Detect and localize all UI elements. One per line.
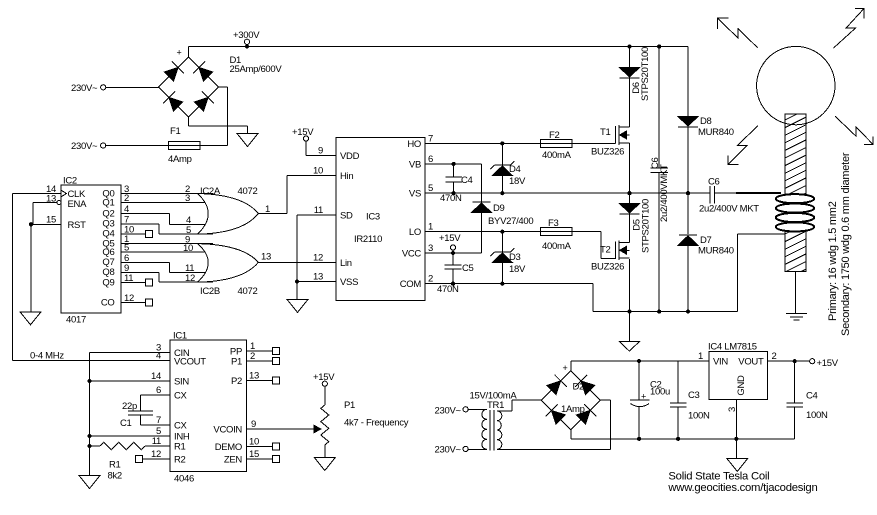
svg-text:9: 9	[251, 419, 256, 430]
svg-text:F1: F1	[170, 126, 181, 137]
svg-text:10: 10	[249, 437, 259, 448]
svg-text:CO: CO	[101, 298, 115, 309]
svg-text:MUR840: MUR840	[698, 127, 734, 138]
svg-text:1: 1	[428, 222, 433, 233]
svg-text:470N: 470N	[440, 193, 462, 204]
svg-text:IC2B: IC2B	[200, 286, 220, 297]
svg-text:5: 5	[428, 183, 433, 194]
svg-text:+: +	[177, 48, 182, 58]
svg-text:HO: HO	[407, 139, 421, 150]
svg-text:R1: R1	[174, 442, 186, 453]
svg-text:4017: 4017	[66, 315, 86, 326]
svg-text:2u2/400V MKT: 2u2/400V MKT	[699, 204, 759, 215]
svg-text:VOUT: VOUT	[738, 357, 764, 368]
svg-text:11: 11	[124, 273, 133, 284]
svg-text:SD: SD	[340, 211, 353, 222]
svg-text:CX: CX	[174, 391, 188, 402]
svg-text:4: 4	[156, 350, 161, 361]
svg-text:CX: CX	[174, 421, 188, 432]
svg-text:Q1: Q1	[102, 197, 114, 208]
svg-text:C6: C6	[708, 177, 720, 188]
svg-text:2: 2	[428, 274, 433, 285]
svg-text:12: 12	[185, 273, 195, 284]
svg-text:100u: 100u	[650, 387, 670, 398]
svg-text:BYV27/400: BYV27/400	[488, 216, 533, 227]
svg-text:100N: 100N	[688, 411, 710, 422]
svg-text:Lin: Lin	[340, 258, 352, 269]
svg-text:ZEN: ZEN	[224, 455, 243, 466]
svg-text:GND: GND	[736, 375, 747, 396]
svg-text:T2: T2	[600, 244, 611, 255]
svg-text:11: 11	[152, 436, 161, 447]
svg-text:F2: F2	[549, 130, 560, 141]
svg-text:STPS20T100: STPS20T100	[641, 199, 652, 253]
svg-text:1: 1	[265, 204, 270, 215]
svg-text:230V~: 230V~	[71, 83, 98, 94]
svg-text:13: 13	[46, 194, 56, 205]
svg-text:IR2110: IR2110	[354, 234, 382, 245]
svg-text:D9: D9	[493, 203, 505, 214]
svg-text:IC2: IC2	[63, 176, 77, 187]
svg-text:+15V: +15V	[439, 233, 461, 244]
svg-text:12: 12	[124, 293, 134, 304]
svg-text:10: 10	[183, 243, 193, 254]
svg-text:C3: C3	[688, 390, 700, 401]
svg-text:13: 13	[313, 272, 323, 283]
svg-text:10: 10	[313, 166, 323, 177]
svg-text:2: 2	[250, 351, 255, 362]
svg-text:8k2: 8k2	[108, 471, 122, 482]
svg-text:T1: T1	[600, 127, 611, 138]
svg-text:RST: RST	[68, 220, 87, 231]
svg-text:ENA: ENA	[68, 199, 88, 210]
svg-text:Solid State Tesla Coil: Solid State Tesla Coil	[668, 471, 769, 483]
svg-text:18V: 18V	[509, 264, 526, 275]
svg-text:13: 13	[249, 371, 259, 382]
svg-text:15: 15	[46, 215, 56, 226]
svg-text:3: 3	[727, 407, 738, 412]
svg-text:VCOIN: VCOIN	[213, 425, 242, 436]
svg-text:VCOUT: VCOUT	[174, 356, 206, 367]
svg-text:4Amp: 4Amp	[168, 154, 192, 165]
svg-text:VS: VS	[409, 189, 421, 200]
svg-text:2: 2	[124, 193, 129, 204]
svg-text:TR1: TR1	[487, 400, 504, 411]
svg-text:Primary: 16 wdg 1.5 mm2: Primary: 16 wdg 1.5 mm2	[827, 201, 839, 321]
svg-text:SIN: SIN	[174, 377, 189, 388]
svg-text:230V~: 230V~	[435, 406, 462, 417]
svg-text:IC2A: IC2A	[200, 186, 221, 197]
svg-text:6: 6	[428, 154, 433, 165]
svg-text:22p: 22p	[122, 401, 137, 412]
svg-text:LO: LO	[409, 227, 421, 238]
svg-text:VIN: VIN	[713, 357, 728, 368]
svg-text:BUZ326: BUZ326	[591, 262, 624, 273]
svg-text:4072: 4072	[238, 286, 258, 297]
svg-text:C4: C4	[806, 391, 818, 402]
svg-text:Q9: Q9	[102, 277, 114, 288]
svg-text:470N: 470N	[437, 284, 459, 295]
svg-text:+15V: +15V	[292, 127, 314, 138]
svg-text:9: 9	[318, 146, 323, 157]
svg-text:+: +	[563, 363, 568, 373]
svg-text:MUR840: MUR840	[698, 246, 734, 257]
svg-text:F3: F3	[548, 218, 559, 229]
svg-text:15: 15	[249, 449, 259, 460]
svg-text:100N: 100N	[806, 410, 828, 421]
svg-text:13: 13	[261, 252, 271, 263]
svg-text:7: 7	[428, 133, 433, 144]
svg-text:C4: C4	[461, 175, 473, 186]
svg-text:230V~: 230V~	[435, 445, 462, 456]
svg-text:+: +	[641, 392, 646, 402]
svg-text:1: 1	[698, 351, 703, 362]
svg-text:400mA: 400mA	[542, 241, 572, 252]
svg-text:D8: D8	[700, 116, 712, 127]
svg-text:4072: 4072	[238, 186, 258, 197]
svg-text:230V~: 230V~	[71, 141, 98, 152]
svg-text:DEMO: DEMO	[215, 442, 242, 453]
svg-text:11: 11	[314, 205, 323, 216]
svg-text:IC3: IC3	[366, 212, 380, 223]
svg-text:2u2/400VMKT: 2u2/400VMKT	[659, 164, 670, 222]
svg-text:Hin: Hin	[340, 171, 353, 182]
svg-text:C5: C5	[462, 263, 474, 274]
svg-text:IC1: IC1	[173, 331, 187, 342]
svg-text:VB: VB	[409, 159, 421, 170]
svg-text:18V: 18V	[509, 176, 526, 187]
svg-text:R1: R1	[109, 460, 121, 471]
svg-text:www.geocities.com/tjacodesign: www.geocities.com/tjacodesign	[667, 482, 817, 494]
svg-text:4k7 - Frequency: 4k7 - Frequency	[344, 418, 409, 429]
svg-text:14: 14	[151, 371, 161, 382]
svg-text:25Amp/600V: 25Amp/600V	[230, 64, 283, 75]
svg-text:BUZ326: BUZ326	[591, 147, 624, 158]
svg-text:2: 2	[772, 351, 777, 362]
svg-text:VCC: VCC	[402, 249, 422, 260]
svg-text:VSS: VSS	[340, 277, 358, 288]
svg-text:4046: 4046	[174, 474, 194, 485]
svg-text:STPS20T100: STPS20T100	[640, 47, 651, 101]
svg-text:C1: C1	[120, 418, 132, 429]
svg-text:COM: COM	[400, 279, 422, 290]
svg-text:R2: R2	[174, 455, 186, 466]
svg-text:IC4 LM7815: IC4 LM7815	[708, 342, 757, 353]
svg-text:Secondary: 1750 wdg 0.6 mm dia: Secondary: 1750 wdg 0.6 mm diameter	[840, 152, 852, 336]
svg-text:12: 12	[151, 449, 161, 460]
svg-text:12: 12	[313, 252, 323, 263]
svg-text:D3: D3	[509, 252, 521, 263]
svg-text:D7: D7	[700, 235, 712, 246]
svg-text:P1: P1	[231, 357, 242, 368]
svg-text:D2: D2	[573, 382, 585, 393]
svg-text:P1: P1	[344, 400, 355, 411]
svg-text:VDD: VDD	[340, 151, 360, 162]
svg-text:7: 7	[156, 415, 161, 426]
svg-text:6: 6	[156, 385, 161, 396]
svg-text:+15V: +15V	[817, 358, 839, 369]
svg-text:1Amp: 1Amp	[561, 404, 585, 415]
svg-text:3: 3	[428, 243, 433, 254]
svg-text:400mA: 400mA	[542, 150, 572, 161]
svg-text:D4: D4	[509, 164, 521, 175]
svg-text:P2: P2	[231, 376, 242, 387]
svg-text:3: 3	[185, 193, 190, 204]
svg-text:0-4 MHz: 0-4 MHz	[30, 350, 64, 361]
